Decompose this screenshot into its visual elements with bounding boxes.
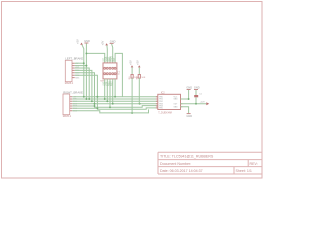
svg-text:IC2: IC2: [161, 91, 165, 94]
svg-text:IC1: IC1: [117, 70, 120, 74]
svg-text:GND: GND: [174, 99, 179, 101]
svg-text:+5V: +5V: [101, 40, 105, 45]
svg-text:Date: 06.03.2017 14:04:37: Date: 06.03.2017 14:04:37: [160, 169, 203, 173]
svg-text:10K: 10K: [141, 77, 145, 79]
svg-text:GND: GND: [174, 107, 179, 109]
svg-text:GND: GND: [84, 39, 90, 43]
svg-text:GND: GND: [186, 85, 192, 89]
svg-text:PB5: PB5: [159, 108, 162, 110]
svg-text:GND: GND: [194, 85, 200, 89]
svg-text:TAST: TAST: [100, 80, 106, 83]
svg-text:+5V: +5V: [76, 39, 80, 44]
svg-text:INT: INT: [113, 57, 116, 62]
svg-text:REV:: REV:: [250, 162, 258, 166]
svg-text:Document Number:: Document Number:: [160, 162, 191, 166]
svg-text:T_DUDKI4M: T_DUDKI4M: [158, 111, 172, 114]
svg-text:TITLE: TLC5941@11_RUBBERS: TITLE: TLC5941@11_RUBBERS: [160, 155, 214, 159]
svg-text:MA05-1: MA05-1: [65, 82, 74, 85]
svg-text:GND: GND: [110, 39, 116, 43]
svg-text:+12V: +12V: [200, 102, 206, 104]
svg-text:+5V: +5V: [136, 60, 140, 65]
svg-text:MA05-1: MA05-1: [63, 115, 72, 118]
svg-text:GND: GND: [186, 114, 192, 118]
svg-text:+5V: +5V: [128, 60, 132, 65]
svg-text:Sheet: 1/1: Sheet: 1/1: [236, 169, 252, 173]
svg-text:SIG5: SIG5: [75, 77, 79, 79]
